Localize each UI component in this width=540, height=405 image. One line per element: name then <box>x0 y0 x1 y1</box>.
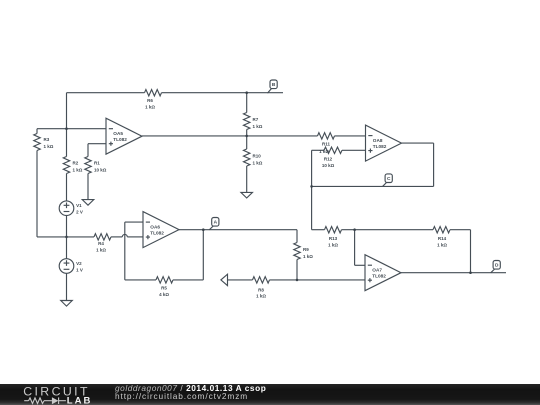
svg-text:R5: R5 <box>161 286 167 291</box>
svg-text:R3: R3 <box>44 137 50 142</box>
svg-text:1 V: 1 V <box>76 267 83 272</box>
svg-text:V2: V2 <box>76 261 82 266</box>
svg-text:10 kΩ: 10 kΩ <box>94 168 107 173</box>
svg-text:R13: R13 <box>329 236 338 241</box>
svg-text:4 kΩ: 4 kΩ <box>159 292 169 297</box>
svg-text:OA5: OA5 <box>113 131 123 136</box>
svg-text:R2: R2 <box>73 161 79 166</box>
svg-text:A: A <box>214 220 218 226</box>
svg-text:1 kΩ: 1 kΩ <box>303 254 313 259</box>
svg-text:B: B <box>272 82 276 88</box>
svg-text:1 kΩ: 1 kΩ <box>145 105 155 110</box>
svg-text:1 kΩ: 1 kΩ <box>328 243 338 248</box>
svg-text:10 kΩ: 10 kΩ <box>322 163 335 168</box>
svg-text:R8: R8 <box>258 288 264 293</box>
svg-text:TL082: TL082 <box>113 137 127 142</box>
svg-text:OA7: OA7 <box>372 268 382 273</box>
svg-text:R9: R9 <box>303 247 309 252</box>
svg-text:R12: R12 <box>324 157 333 162</box>
svg-text:R1: R1 <box>94 161 100 166</box>
svg-text:OA8: OA8 <box>373 138 383 143</box>
svg-text:2 V: 2 V <box>76 210 83 215</box>
svg-text:R11: R11 <box>322 142 331 147</box>
svg-text:V1: V1 <box>76 203 82 208</box>
svg-text:1 kΩ: 1 kΩ <box>256 294 266 299</box>
svg-text:1 kΩ: 1 kΩ <box>253 161 263 166</box>
svg-text:1 kΩ: 1 kΩ <box>253 124 263 129</box>
svg-text:1 kΩ: 1 kΩ <box>44 144 54 149</box>
svg-text:TL082: TL082 <box>373 144 387 149</box>
svg-text:R4: R4 <box>98 241 104 246</box>
svg-text:LAB: LAB <box>67 396 93 405</box>
svg-text:TL082: TL082 <box>150 230 164 235</box>
svg-text:R10: R10 <box>253 154 262 159</box>
svg-text:D: D <box>495 263 499 269</box>
svg-text:1 kΩ: 1 kΩ <box>437 243 447 248</box>
svg-text:R6: R6 <box>147 98 153 103</box>
svg-text:C: C <box>387 176 391 182</box>
svg-text:1 kΩ: 1 kΩ <box>96 248 106 253</box>
svg-text:1 kΩ: 1 kΩ <box>319 149 329 154</box>
svg-text:OA6: OA6 <box>150 224 160 229</box>
svg-text:1 kΩ: 1 kΩ <box>73 168 83 173</box>
svg-text:R7: R7 <box>253 117 259 122</box>
svg-text:TL082: TL082 <box>372 274 386 279</box>
svg-text:http://circuitlab.com/ctv2mzm: http://circuitlab.com/ctv2mzm <box>115 391 248 401</box>
svg-text:R14: R14 <box>438 236 447 241</box>
